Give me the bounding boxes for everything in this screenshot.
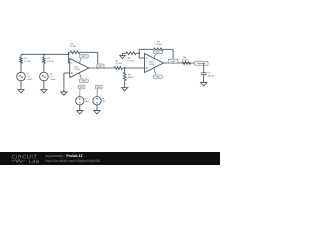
svg-text:http://circuitlab.com/c/5pahn8: http://circuitlab.com/c/5pahn84s4h36 xyxy=(45,159,100,163)
svg-text:3.3 kΩ: 3.3 kΩ xyxy=(115,62,122,65)
svg-text:VEE: VEE xyxy=(82,80,87,83)
svg-text:2.2 kΩ: 2.2 kΩ xyxy=(155,43,162,46)
svg-text:anyaronsky : Prolab 12: anyaronsky : Prolab 12 xyxy=(45,154,83,158)
svg-text:680 Ω: 680 Ω xyxy=(128,76,134,79)
svg-text:LAB: LAB xyxy=(29,159,40,164)
svg-text:10 kΩ: 10 kΩ xyxy=(70,45,76,48)
svg-text:3.3 kΩ: 3.3 kΩ xyxy=(24,60,31,63)
svg-text:TL081: TL081 xyxy=(74,68,81,71)
svg-text:VEE: VEE xyxy=(156,76,161,79)
svg-text:Vspeaker: Vspeaker xyxy=(197,62,206,65)
svg-text:VCC: VCC xyxy=(79,86,84,89)
svg-text:1 kHz: 1 kHz xyxy=(27,78,32,81)
svg-text:2.2 kΩ: 2.2 kΩ xyxy=(128,60,135,63)
svg-text:39 kΩ: 39 kΩ xyxy=(182,59,188,62)
svg-text:VEE: VEE xyxy=(97,86,102,89)
svg-text:100 µF: 100 µF xyxy=(208,74,216,77)
svg-text:3.3 kΩ: 3.3 kΩ xyxy=(47,60,54,63)
svg-text:1 MHz: 1 MHz xyxy=(50,78,56,81)
svg-text:VCC: VCC xyxy=(156,51,161,54)
svg-text:TL081: TL081 xyxy=(149,63,156,66)
svg-text:VCC: VCC xyxy=(82,55,87,58)
